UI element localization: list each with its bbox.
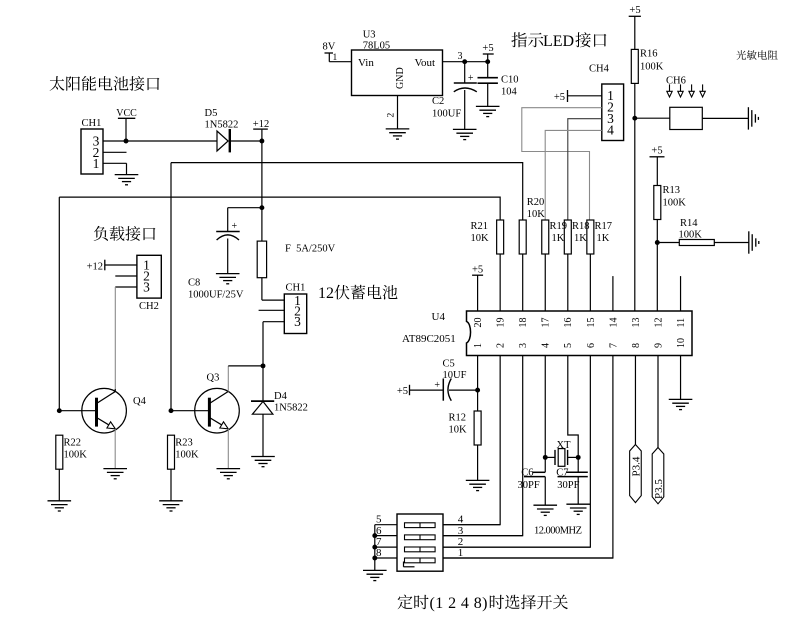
svg-text:+12: +12 (87, 262, 103, 273)
svg-text:GND: GND (395, 67, 406, 89)
svg-text:R17: R17 (595, 221, 613, 232)
svg-text:D4: D4 (274, 391, 288, 402)
svg-text:1: 1 (333, 53, 338, 63)
svg-text:U4: U4 (432, 311, 446, 323)
svg-text:100K: 100K (679, 230, 703, 241)
svg-text:30PF: 30PF (557, 480, 579, 491)
svg-text:78L05: 78L05 (363, 40, 390, 51)
svg-text:3: 3 (458, 51, 463, 62)
svg-text:10K: 10K (449, 425, 468, 436)
svg-text:R23: R23 (175, 438, 193, 449)
svg-text:5: 5 (563, 343, 574, 348)
svg-text:R13: R13 (663, 185, 681, 196)
svg-text:1N5822: 1N5822 (205, 119, 239, 130)
svg-text:1: 1 (473, 343, 484, 348)
svg-text:7: 7 (608, 343, 619, 348)
svg-text:C6: C6 (521, 468, 533, 479)
svg-text:4: 4 (607, 123, 614, 138)
svg-text:2: 2 (496, 343, 507, 348)
svg-text:11: 11 (676, 318, 687, 328)
svg-text:C7: C7 (556, 468, 568, 479)
svg-text:1K: 1K (552, 233, 565, 244)
svg-text:C5: C5 (443, 359, 455, 370)
svg-text:8: 8 (631, 343, 642, 348)
svg-text:100K: 100K (640, 62, 664, 73)
svg-text:8: 8 (376, 547, 382, 559)
svg-text:F 5A/250V: F 5A/250V (285, 244, 336, 255)
svg-text:30PF: 30PF (518, 480, 540, 491)
svg-text:R21: R21 (471, 221, 489, 232)
svg-text:R18: R18 (572, 221, 590, 232)
svg-text:100K: 100K (175, 450, 199, 461)
svg-text:100UF: 100UF (432, 109, 461, 120)
svg-text:6: 6 (586, 343, 597, 348)
svg-text:LED: LED (543, 33, 574, 50)
svg-text:2: 2 (386, 113, 396, 118)
svg-text:+: + (468, 73, 474, 84)
svg-text:9: 9 (653, 343, 664, 348)
svg-text:3: 3 (294, 314, 301, 329)
svg-text:C2: C2 (432, 96, 444, 107)
svg-text:14: 14 (608, 318, 619, 328)
svg-text:C10: C10 (501, 75, 519, 86)
svg-text:+: + (231, 221, 237, 232)
svg-text:Vout: Vout (415, 57, 436, 69)
svg-text:1K: 1K (597, 233, 610, 244)
svg-text:R14: R14 (680, 218, 698, 229)
svg-text:10K: 10K (471, 233, 490, 244)
svg-text:Q4: Q4 (133, 396, 147, 407)
svg-text:+5: +5 (397, 386, 408, 397)
svg-text:P3.5: P3.5 (653, 479, 665, 499)
svg-text:+5: +5 (629, 5, 640, 16)
svg-text:10UF: 10UF (443, 370, 467, 381)
svg-text:VCC: VCC (116, 108, 137, 119)
svg-text:+5: +5 (482, 43, 493, 54)
svg-text:R12: R12 (449, 413, 467, 424)
svg-text:CH4: CH4 (589, 64, 610, 75)
svg-text:4: 4 (458, 514, 464, 526)
svg-text:CH2: CH2 (139, 301, 159, 312)
svg-text:5: 5 (376, 514, 382, 526)
svg-text:20: 20 (473, 318, 484, 328)
svg-text:19: 19 (496, 318, 507, 328)
svg-text:R19: R19 (550, 221, 568, 232)
svg-text:12: 12 (318, 285, 334, 302)
svg-text:8V: 8V (323, 42, 336, 53)
svg-text:+5: +5 (651, 146, 662, 157)
svg-text:1N5822: 1N5822 (274, 403, 308, 414)
svg-text:4: 4 (541, 343, 552, 348)
svg-text:R16: R16 (640, 49, 658, 60)
svg-text:D5: D5 (205, 108, 218, 119)
svg-text:100K: 100K (64, 450, 88, 461)
svg-text:100K: 100K (663, 198, 687, 209)
svg-text:1: 1 (93, 156, 100, 171)
svg-text:+: + (434, 380, 440, 391)
svg-text:+5: +5 (472, 265, 483, 276)
svg-text:10: 10 (676, 338, 687, 348)
svg-text:12.000MHZ: 12.000MHZ (534, 526, 582, 537)
svg-text:CH1: CH1 (82, 118, 102, 129)
svg-text:+12: +12 (253, 119, 269, 130)
svg-text:12: 12 (653, 318, 664, 328)
svg-text:3: 3 (143, 280, 150, 295)
svg-text:R20: R20 (527, 197, 545, 208)
svg-text:1K: 1K (574, 233, 587, 244)
svg-text:3: 3 (518, 343, 529, 348)
svg-text:104: 104 (501, 87, 518, 98)
svg-text:16: 16 (563, 318, 574, 328)
svg-text:P3.4: P3.4 (630, 456, 642, 476)
svg-text:15: 15 (586, 318, 597, 328)
svg-text:+5: +5 (554, 92, 565, 103)
svg-text:C8: C8 (188, 278, 200, 289)
svg-text:AT89C2051: AT89C2051 (402, 333, 456, 345)
svg-text:17: 17 (541, 318, 552, 328)
svg-text:18: 18 (518, 318, 529, 328)
svg-text:1000UF/25V: 1000UF/25V (188, 290, 244, 301)
svg-text:Q3: Q3 (207, 373, 220, 384)
svg-text:R22: R22 (64, 438, 82, 449)
svg-text:(1 2 4 8): (1 2 4 8) (430, 595, 488, 612)
svg-text:13: 13 (631, 318, 642, 328)
svg-text:1: 1 (458, 547, 464, 559)
svg-text:10K: 10K (527, 209, 546, 220)
svg-text:U3: U3 (363, 30, 376, 41)
svg-text:Vin: Vin (358, 57, 374, 69)
